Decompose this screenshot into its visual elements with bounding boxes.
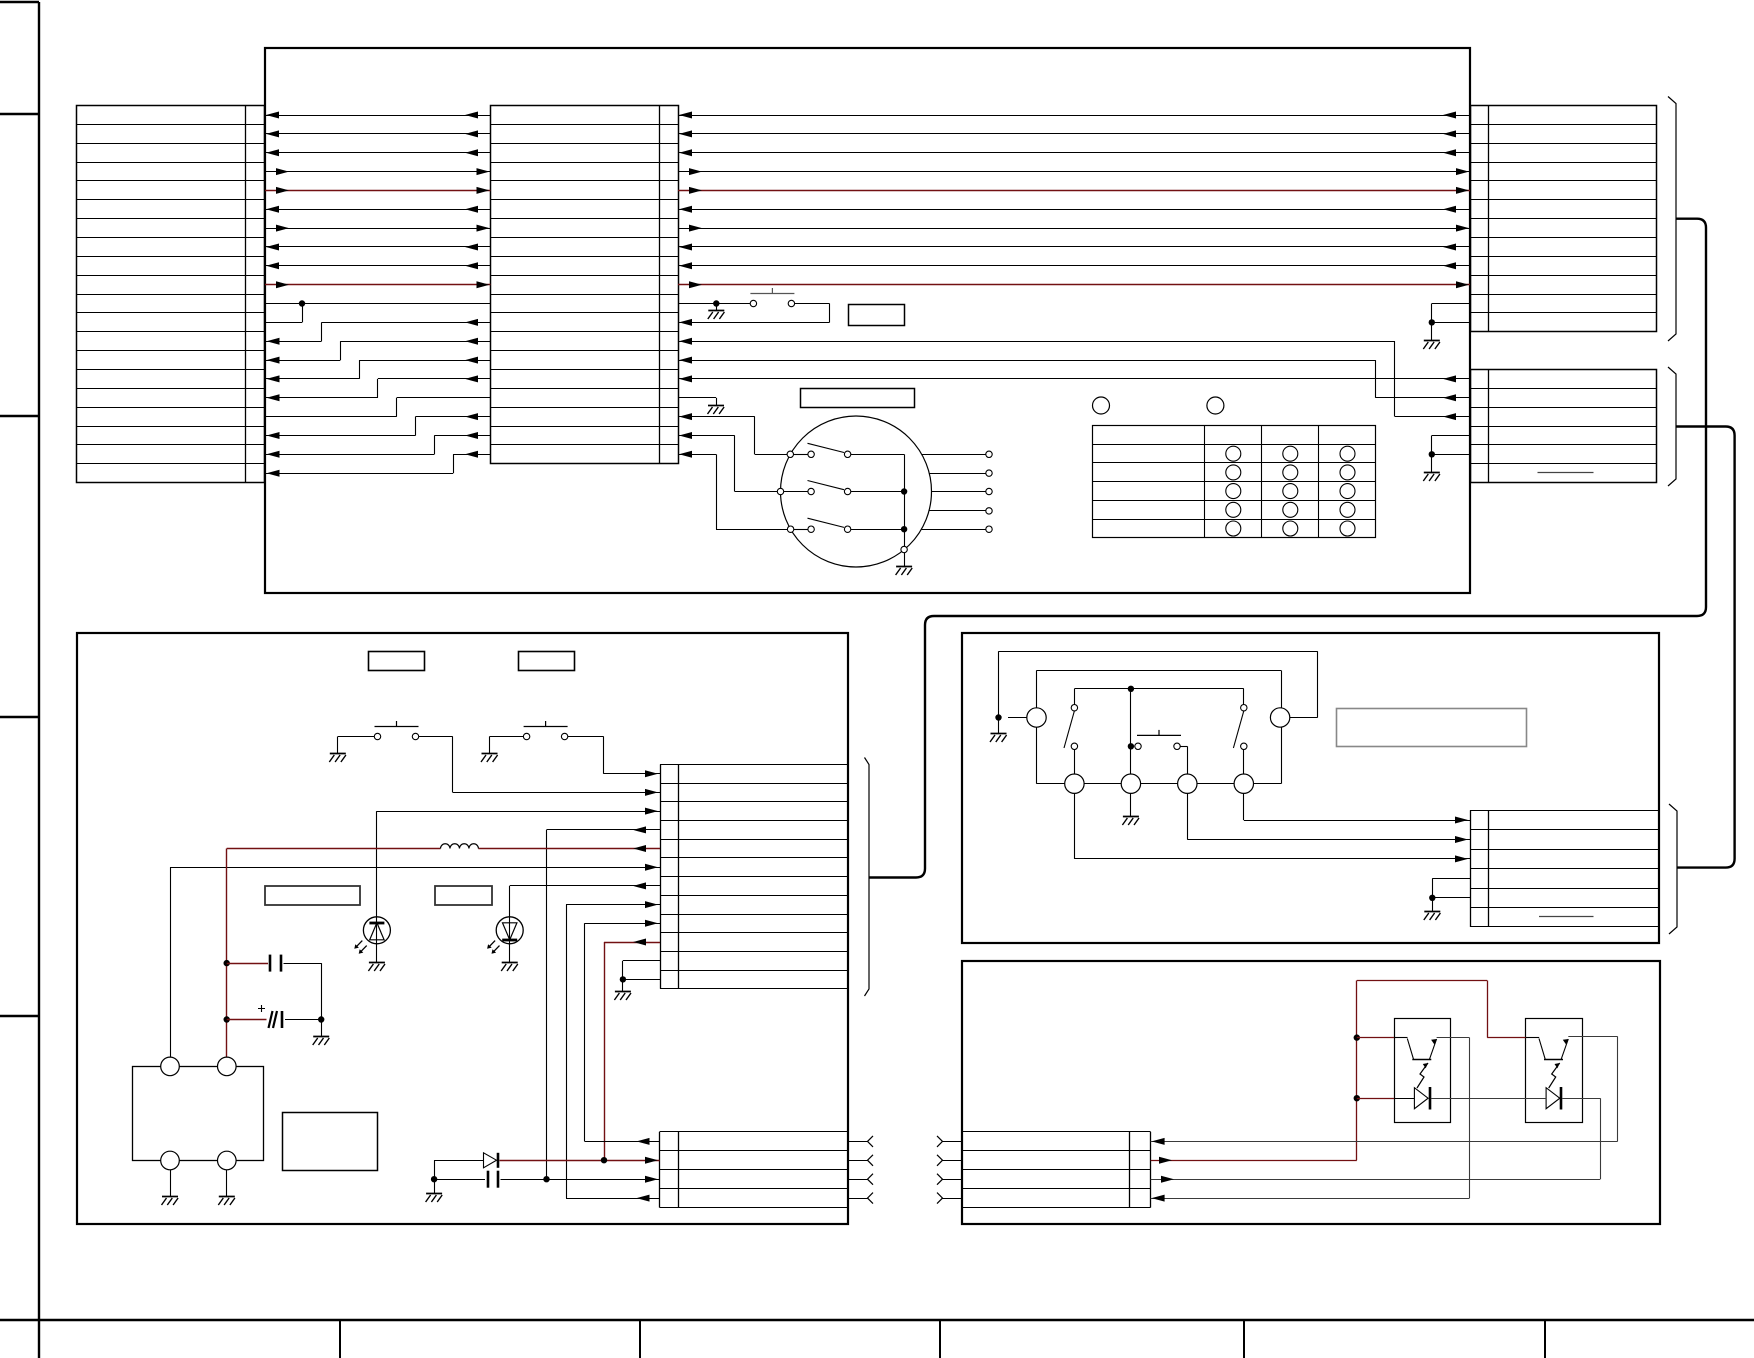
wire row 11 right with junction <box>678 303 750 305</box>
wire signal row 5 (CN2-CN3) <box>678 187 1470 194</box>
photocoupler PC1 package <box>1395 1019 1451 1123</box>
wire signal row 2 (CN2-CN3) <box>678 130 1470 137</box>
rotary switch common terminal <box>901 546 907 552</box>
capacitor C702 (electrolytic) <box>227 1005 322 1028</box>
junction node at SW ground <box>713 300 719 306</box>
wire PC2 emitter to CN8 pin 1 <box>1568 1037 1617 1142</box>
ground (C702) <box>313 1020 330 1046</box>
wire jog rail 1 <box>999 651 1318 717</box>
jog detent contacts D1-D4 <box>1065 774 1254 793</box>
connector CN4 (lower right 6-pin table) <box>1470 370 1657 483</box>
wire PC1 emitter to CN8 pin 4 <box>1437 1038 1470 1199</box>
mode matrix table <box>1093 426 1376 538</box>
wire D4 to CN6 pin 1 <box>1244 793 1471 823</box>
junction CN5 ground <box>620 976 626 982</box>
junction CN6 ground <box>1429 895 1435 901</box>
wire CN2 row 16 to ground <box>678 398 724 415</box>
rotary switch output contacts <box>921 451 992 532</box>
label box (function select) <box>801 389 915 408</box>
wire row 11 with junction to row 12 (left span) <box>265 304 491 323</box>
main board outline (top) <box>265 48 1470 593</box>
wire staircase CN2 row 18 to CN1 row 19 <box>265 432 491 458</box>
wire signal row 9 (CN1-CN2) <box>265 262 491 269</box>
junction CN4 ground <box>1429 451 1435 457</box>
capacitor C703 <box>434 1171 659 1188</box>
wire signal row 8 (CN2-CN3) <box>678 244 1470 251</box>
rotary switch common bus <box>904 454 906 546</box>
wire jog rail 3 <box>1074 689 1243 705</box>
wire CN5 pin 4 to CN7 pin 3 <box>547 826 661 1179</box>
wire signal row 7 (CN1-CN2) <box>265 225 491 232</box>
wire SW701 to ground <box>329 737 374 763</box>
vibration motor M701 <box>133 1057 264 1170</box>
junction C703 to CN5 pin 4 <box>543 1176 549 1182</box>
connector CN1 (left 20-pin table) <box>77 106 266 483</box>
wire CN5 pin 7 to LED D702 <box>510 882 661 917</box>
wire signal row 1 (CN2-CN3) <box>678 112 1470 119</box>
wire CN8 pin 1 <box>1151 1138 1618 1145</box>
label box D701 <box>265 886 360 905</box>
ground (CN4) <box>1423 454 1440 481</box>
harness link CN3 to CN5 (thick) <box>869 219 1706 878</box>
wire signal row 7 (CN2-CN3) <box>678 225 1470 232</box>
ground (D701) <box>368 944 385 972</box>
wire center push branch <box>1130 689 1132 774</box>
wire CN2 row 17 to rotary switch pole A <box>678 413 787 454</box>
sensor board outline (bottom right) <box>962 961 1660 1224</box>
wire staircase CN2 row 14 to CN1 row 15 <box>265 357 491 383</box>
LED D701 <box>354 917 390 954</box>
ground (M701 pin 3) <box>162 1170 179 1205</box>
harness link CN4 to CN6 (thick) <box>1676 427 1735 868</box>
junction pole B common <box>901 488 907 494</box>
power rail (red) from L701 <box>226 849 228 1058</box>
harness bracket CN4 <box>1668 367 1676 486</box>
harness bracket CN6 <box>1669 804 1677 934</box>
switch S2 (right jog contact) <box>1233 705 1247 775</box>
pushbutton switch SW702 <box>523 721 567 740</box>
label box M701 <box>283 1113 378 1171</box>
wire D1 to CN6 pin 3 <box>1074 793 1470 862</box>
wire signal row 4 (CN1-CN2) <box>265 168 491 175</box>
ground (CN5) <box>614 979 631 1000</box>
junction node row 11 <box>299 300 305 306</box>
wire S3 to D3 column <box>1180 746 1187 774</box>
wire CN2 row 18 to rotary switch pole B <box>678 432 777 492</box>
wire SW601 to row 12 loop <box>678 304 830 326</box>
wire CN7 pin 1 <box>585 1138 660 1145</box>
diode D703 <box>434 1153 498 1168</box>
switch S1 (left jog contact) <box>1064 705 1078 775</box>
harness bracket CN3 <box>1668 97 1676 342</box>
ground (rotary switch) <box>896 553 913 575</box>
connector CN8 (4-pin) <box>962 1132 1151 1208</box>
ground (CN7) <box>426 1179 443 1202</box>
LED inside PC1 <box>1414 1087 1430 1110</box>
wire signal row 10 (CN1-CN2) <box>265 281 491 288</box>
wire staircase CN2 row 12 to CN1 row 13 <box>265 319 491 345</box>
wire signal row 3 (CN1-CN2) <box>265 149 491 156</box>
wire signal row 5 (CN1-CN2) <box>265 187 491 194</box>
wire CN5 pin 9 to CN7 pin 1 <box>585 920 661 1142</box>
junction jog common ground <box>995 714 1001 720</box>
wire CN8 pin 3 <box>1151 1176 1601 1183</box>
wire signal row 3 (CN2-CN3) <box>678 149 1470 156</box>
wire D3 to CN6 pin 2 <box>1187 793 1470 843</box>
rotary switch pole A <box>787 443 904 457</box>
wire staircase CN2 row 16 to CN1 row 17 <box>265 398 491 417</box>
inductor L701 <box>441 844 479 849</box>
wire supply to PC1 collector <box>1357 1037 1408 1039</box>
wire jog rail 2 <box>1037 670 1282 707</box>
jog contact E2 <box>1270 708 1289 727</box>
wire CN2 row 19 to rotary switch pole C <box>678 451 787 530</box>
power rail (red) sensor board <box>1357 981 1540 1161</box>
junction C702 <box>224 1016 230 1022</box>
wire CN5 pin 3 to LED D701 <box>377 808 661 918</box>
pushbutton switch SW601 <box>750 288 794 307</box>
harness stubs CN7 <box>848 1136 873 1204</box>
wire D703 anode to ground node <box>434 1160 436 1179</box>
LED inside PC2 <box>1546 1087 1561 1110</box>
blank value line in CN4 row 6 <box>1538 472 1594 474</box>
junction jog rail 3 center <box>1128 686 1134 692</box>
label box S901 (gray) <box>1337 709 1527 747</box>
wire SW702 to ground <box>481 737 524 763</box>
LED D702 <box>487 917 523 954</box>
connector CN5 (12-pin) <box>660 764 848 988</box>
wire CN3 pins 11-12 ground tie <box>1432 304 1471 323</box>
photocoupler PC2 package <box>1526 1019 1583 1123</box>
wire SW702 to CN5 pin 1 <box>568 737 660 778</box>
phototransistor PC1 <box>1407 1039 1436 1089</box>
harness bracket CN5 <box>865 758 870 997</box>
connector CN2 (middle 19-pin table) <box>491 106 679 464</box>
wire supply to PC1 LED anode <box>1357 1098 1415 1100</box>
wire CN8 pin 2 (power) <box>1151 1157 1357 1164</box>
junction PC1 collector supply <box>1354 1034 1360 1040</box>
wire CN6 pins 4-5 ground tie <box>1432 878 1470 897</box>
label box SW701 <box>369 652 425 671</box>
wire signal row 2 (CN1-CN2) <box>265 130 491 137</box>
junction CN3 ground <box>1429 319 1435 325</box>
title block <box>0 1320 1754 1358</box>
ground (D702) <box>501 944 518 972</box>
jog contact E1 <box>1008 708 1046 727</box>
wire staircase CN2 row 17 to CN1 row 18 <box>265 413 491 439</box>
wire CN2 row 15 to CN4 pin 1 <box>678 375 1470 382</box>
wire signal row 4 (CN2-CN3) <box>678 168 1470 175</box>
junction CN7 pin2 power <box>601 1157 607 1163</box>
indicator lamp B <box>1207 397 1224 414</box>
pushbutton switch S3 (center push) <box>1135 730 1181 750</box>
wire CN5 pin 5 (power via L701) <box>227 845 660 852</box>
operation board outline (bottom left) <box>77 633 848 1224</box>
label box SW702 <box>519 652 575 671</box>
junction center push <box>1128 743 1134 749</box>
wire CN5 pin 10 to CN7 pin 2 (power) <box>604 939 660 1161</box>
capacitor C701 <box>227 955 322 1020</box>
rotary switch pole C <box>787 518 904 532</box>
wire SW701 to CN5 pin 2 <box>419 737 661 796</box>
connector CN3 (upper right 12-pin table) <box>1470 106 1657 332</box>
wire signal row 6 (CN2-CN3) <box>678 206 1470 213</box>
ground (CN6) <box>1424 898 1441 920</box>
connector CN6 (6-pin) <box>1470 810 1659 927</box>
wire CN7 pin 4 <box>566 1195 660 1202</box>
wire staircase CN2 row 15 to CN1 row 16 <box>265 375 491 401</box>
ground (CN3) <box>1423 322 1440 349</box>
wire CN2 row 14 to CN4 pin 2 <box>678 357 1470 402</box>
pushbutton switch SW701 <box>374 721 418 740</box>
wire CN5 pins 11-12 ground tie <box>623 961 661 980</box>
label box SW601 <box>849 305 905 326</box>
wire signal row 8 (CN1-CN2) <box>265 244 491 251</box>
junction ground node CN7 <box>431 1176 437 1182</box>
rotary switch pole B <box>777 481 904 495</box>
wire CN5 pin 8 to CN7 pin 4 <box>566 901 660 1198</box>
wire signal row 6 (CN1-CN2) <box>265 206 491 213</box>
rotary switch S901 body <box>781 416 932 567</box>
wire CN5 pin 6 to vibration motor <box>170 864 660 1057</box>
junction pole C common <box>901 526 907 532</box>
junction PC1 LED supply <box>1354 1095 1360 1101</box>
wire signal row 9 (CN2-CN3) <box>678 262 1470 269</box>
wire staircase CN2 row 13 to CN1 row 14 <box>265 338 491 364</box>
indicator lamp A <box>1093 397 1110 414</box>
wire D703 to CN7 pin 2 (power) <box>500 1157 660 1164</box>
label box D702 <box>435 886 492 905</box>
wire signal row 1 (CN1-CN2) <box>265 112 491 119</box>
wire jog bottom rail <box>1037 727 1282 784</box>
wire PC1 LED cathode to PC2 LED anode <box>1431 1098 1546 1100</box>
drawing border frame <box>0 2 39 1358</box>
ground (M701 pin 4) <box>218 1170 235 1205</box>
wire staircase CN2 row 19 to CN1 row 20 <box>265 451 491 477</box>
ground (jog common) <box>990 718 1007 743</box>
wire CN2 row 13 to CN4 pin 3 <box>678 338 1470 420</box>
jog switch board outline <box>962 633 1659 943</box>
ground (SW1 board) <box>708 304 725 320</box>
wire PC2 LED cathode to CN8 pin 3 <box>1562 1098 1600 1179</box>
junction C701 <box>224 960 230 966</box>
ground (D2) <box>1122 793 1139 825</box>
phototransistor PC2 <box>1539 1039 1568 1089</box>
wire CN4 pins 4-5 ground tie <box>1432 436 1471 455</box>
wire CN8 pin 4 <box>1151 1195 1470 1202</box>
blank value line in CN6 row 6 <box>1539 916 1594 918</box>
wire signal row 10 (CN2-CN3) <box>678 281 1470 288</box>
connector CN7 (4-pin) <box>660 1132 849 1208</box>
harness stubs CN8 <box>937 1136 962 1204</box>
junction C702 return <box>318 1016 324 1022</box>
mode matrix lamp circles <box>1226 446 1355 536</box>
